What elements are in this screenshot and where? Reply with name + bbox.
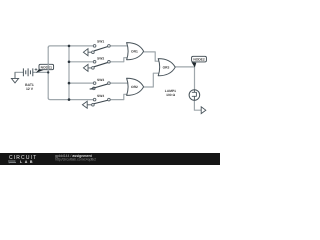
svg-text:SW3: SW3 xyxy=(97,78,104,82)
svg-text:12 V: 12 V xyxy=(26,87,33,91)
junction node dot bus/bottom rail xyxy=(68,98,71,101)
SW2 lever xyxy=(94,62,108,66)
SW2 left contact xyxy=(93,61,96,64)
wire bus vertical x=69 xyxy=(68,46,70,100)
CircuitLab logo text LAB xyxy=(20,160,49,164)
svg-text:SW2: SW2 xyxy=(97,57,104,61)
junction node dot bus/SW2 xyxy=(68,61,71,64)
wire ground to battery negative xyxy=(15,71,23,73)
SW3 pivot contact xyxy=(93,87,96,90)
ground at SW2 pivot xyxy=(83,64,91,71)
footer url text xyxy=(55,158,109,162)
SW1 right contact xyxy=(108,45,111,48)
svg-text:NODE1: NODE1 xyxy=(41,66,53,70)
svg-text:OR3: OR3 xyxy=(163,66,170,70)
battery BAT1 plates xyxy=(23,68,32,76)
ground GND at battery xyxy=(11,72,18,83)
SW2 pivot contact xyxy=(92,67,95,70)
switch SW1 xyxy=(83,40,110,56)
wire OR3 output to NODE2 corner and down to lamp xyxy=(175,67,194,90)
wire lamp bottom to ground xyxy=(194,100,201,110)
SW3 lever xyxy=(90,84,108,89)
SW3 left contact xyxy=(93,82,96,85)
wire left rail vertical x=48.2 xyxy=(47,48,49,98)
switch SW2 xyxy=(83,57,110,71)
SW1 pivot contact xyxy=(92,51,95,54)
CircuitLab logo text CIRCUIT xyxy=(9,155,69,161)
or gate OR3 xyxy=(158,59,175,76)
svg-text:NODE2: NODE2 xyxy=(193,58,205,62)
wire top rail y=45.9 from rail corner to SW1 left contact xyxy=(48,46,93,48)
svg-text:SW4: SW4 xyxy=(97,94,104,98)
junction node dot bus/SW3 xyxy=(68,82,71,85)
wire SW3 output to OR2 input A xyxy=(110,82,128,84)
ground at SW4 pivot xyxy=(82,101,91,108)
svg-text:LAMP1: LAMP1 xyxy=(165,89,176,93)
SW4 left contact xyxy=(93,98,96,101)
wire SW2 output to OR1 input B with jog xyxy=(110,58,128,62)
wire rail passing over NODE1 box xyxy=(47,64,49,69)
or gate OR2 xyxy=(127,78,144,95)
svg-text:OR2: OR2 xyxy=(131,86,138,90)
SW2 right contact xyxy=(108,61,111,64)
junction node dot bus/SW1 xyxy=(68,45,71,48)
svg-text:SW1: SW1 xyxy=(97,40,104,44)
node flag NODE1 xyxy=(36,69,44,73)
wire OR2 output to OR3 input B xyxy=(144,73,160,87)
wire SW3 feed xyxy=(69,82,93,84)
switch SW4 xyxy=(82,94,110,108)
node flag NODE2 xyxy=(192,62,197,67)
svg-text:100 Ω: 100 Ω xyxy=(166,93,175,97)
footer watermark bar xyxy=(0,153,220,165)
SW4 pivot contact xyxy=(92,104,95,107)
or gate OR1 xyxy=(127,43,144,60)
svg-text:OR1: OR1 xyxy=(131,50,138,54)
wire SW4 feed xyxy=(69,99,93,101)
SW1 left contact xyxy=(93,45,96,48)
wire bottom rail y=99.0 from rail corner to bus xyxy=(48,98,69,100)
ground at SW1 pivot xyxy=(83,49,91,56)
ground at lamp (rotated right) xyxy=(201,107,206,114)
wire SW1 output to OR1 input A xyxy=(110,45,128,47)
SW1 lever xyxy=(94,46,108,50)
battery plus sign xyxy=(35,68,37,70)
SW3 stub xyxy=(90,88,94,90)
SW3 right contact xyxy=(108,82,111,85)
CircuitLab logo traces xyxy=(8,160,18,164)
wire SW2 feed xyxy=(69,61,93,63)
switch SW3 xyxy=(90,78,110,89)
wire SW4 output to OR2 input B with jog xyxy=(110,94,128,99)
SW4 right contact xyxy=(108,98,111,101)
SW4 lever xyxy=(94,100,108,104)
junction node dot battery/rail xyxy=(47,71,49,73)
lamp LAMP1 xyxy=(165,89,200,100)
footer project text xyxy=(55,154,111,158)
wire battery positive to rail xyxy=(33,71,48,73)
wire OR1 output to OR3 input A xyxy=(144,52,160,61)
svg-text:BAT1: BAT1 xyxy=(25,83,34,87)
